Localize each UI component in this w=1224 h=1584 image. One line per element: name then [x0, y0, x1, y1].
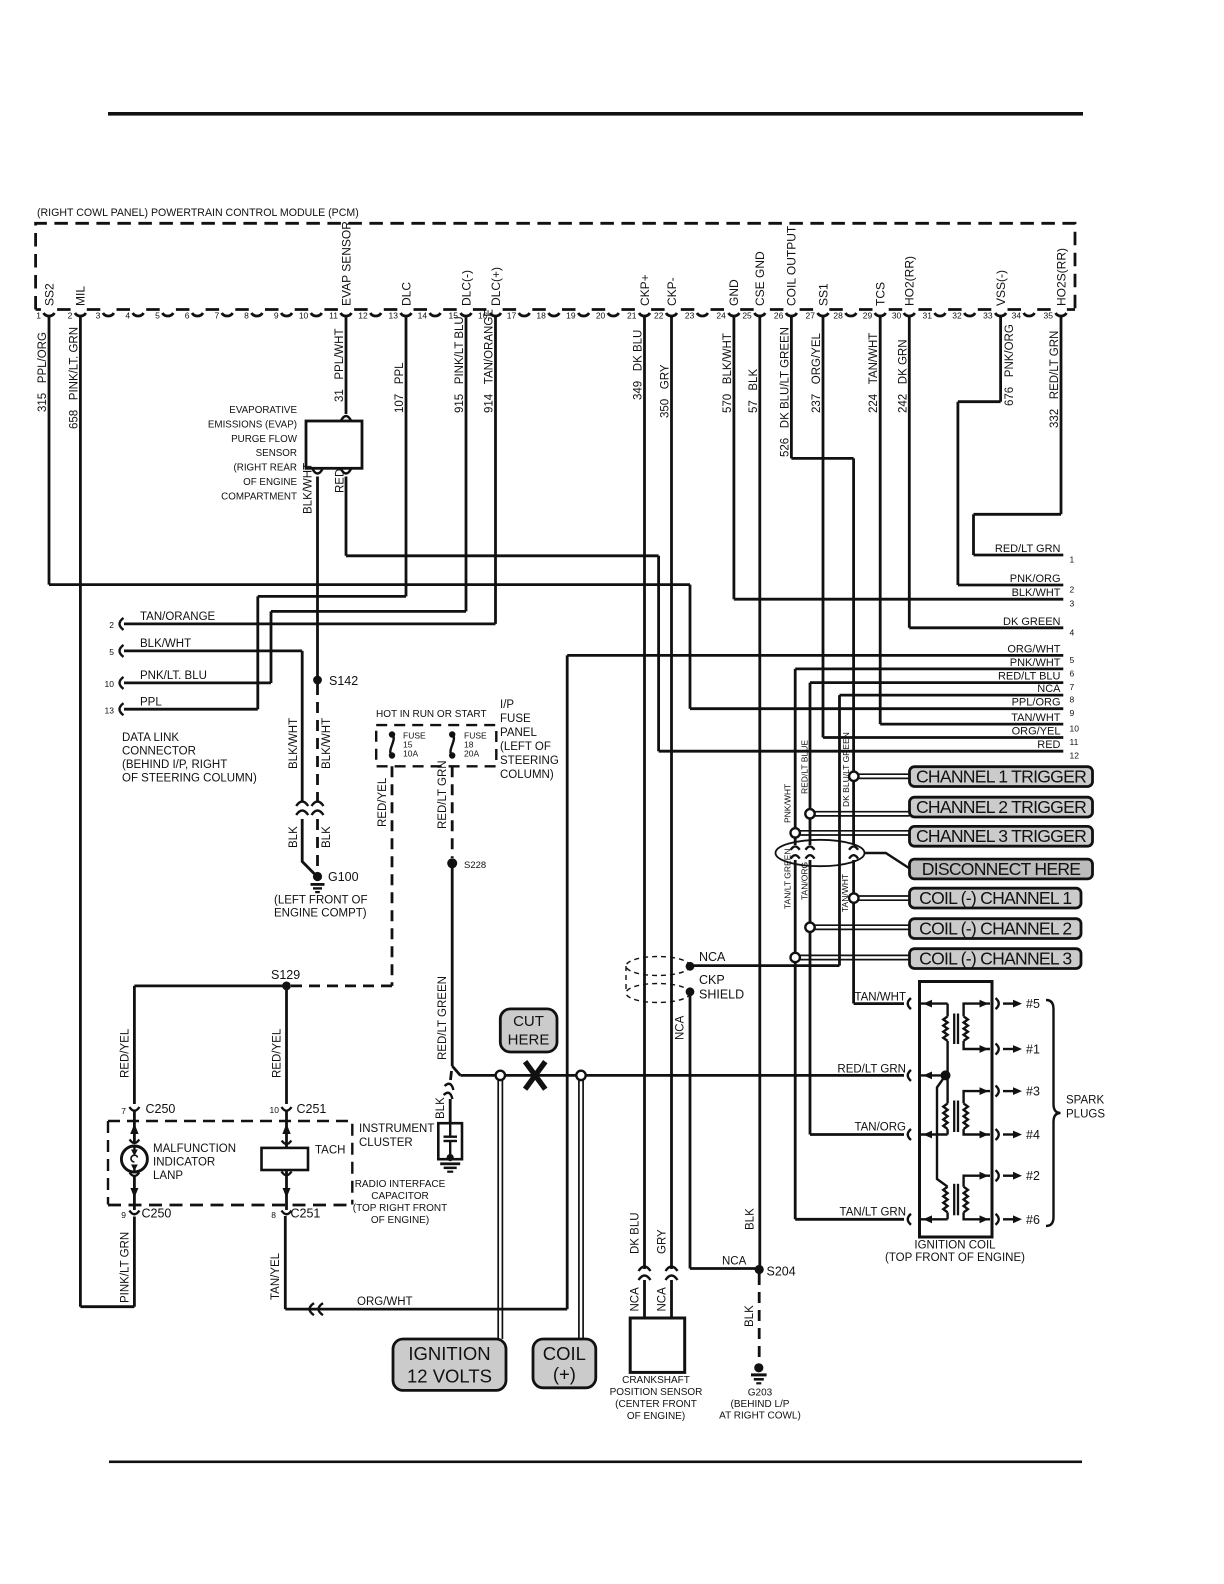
- ladder wire 3 BLK/WHT: [734, 598, 1063, 601]
- hollow wire COIL (-) CHANNEL 3: [795, 954, 909, 956]
- wire pin11 EVAP to sensor box: [345, 316, 348, 414]
- svg-text:SHIELD: SHIELD: [699, 988, 744, 1002]
- CKP shield drum: [626, 957, 690, 976]
- DLC line 10 PNK/LT. BLU: [124, 682, 271, 685]
- svg-text:DK GREEN: DK GREEN: [1003, 616, 1061, 628]
- break symbol on ORG/WHT run: [310, 1303, 324, 1315]
- svg-text:28: 28: [833, 311, 843, 321]
- wire pin29 TCS 224 TAN/WHT down to ladder 10: [879, 316, 882, 724]
- PCM pin 28 connector: [845, 313, 856, 316]
- svg-text:1: 1: [1070, 555, 1075, 565]
- connector at EVAP sensor bottom left (BLK/WHT): [313, 469, 323, 474]
- svg-text:8: 8: [244, 311, 249, 321]
- PCM pin 21 connector: [639, 313, 650, 316]
- wire dashed RED/LT GRN from fuse 18 down to S228: [451, 766, 454, 858]
- connector circle channel 3 trigger on PNK/WHT: [791, 828, 800, 837]
- svg-text:DATA LINK: DATA LINK: [122, 732, 179, 744]
- T3 bypass wire from common dot: [937, 1075, 948, 1186]
- ladder wire 4 DK GREEN: [909, 626, 1063, 629]
- connector at EVAP sensor top: [341, 416, 351, 421]
- wire dashed RED/YEL from fuse 15 down: [391, 766, 394, 986]
- junction S204: [755, 1265, 764, 1274]
- svg-text:#6: #6: [1026, 1213, 1040, 1227]
- svg-text:(RIGHT COWL PANEL) POWERTRAIN: (RIGHT COWL PANEL) POWERTRAIN CONTROL MO…: [37, 207, 359, 219]
- svg-text:EMISSIONS (EVAP): EMISSIONS (EVAP): [208, 419, 297, 430]
- wire pin22 CKP- 350 GRY vertical: [670, 316, 673, 1269]
- svg-text:11: 11: [329, 311, 338, 321]
- svg-text:I/P: I/P: [500, 699, 514, 711]
- wire TACH to C251-8 with arrow: [285, 1170, 288, 1210]
- transformer T1 primary winding: [946, 1004, 948, 1017]
- instrument cluster bottom thick dashed edge: [108, 1204, 352, 1207]
- MIL lamp top connector arc: [130, 1140, 140, 1144]
- transformer T3 core: [953, 1184, 955, 1216]
- svg-text:ORG/WHT: ORG/WHT: [357, 1296, 413, 1308]
- ladder wire 11 ORG/YEL: [823, 736, 1063, 739]
- svg-text:S129: S129: [271, 968, 300, 982]
- coil input TAN/ORG from TAN/ORG riser: [810, 1133, 904, 1136]
- svg-text:HOT IN RUN OR START: HOT IN RUN OR START: [376, 709, 487, 720]
- svg-text:C251: C251: [297, 1102, 327, 1116]
- PCM pin 32 connector: [964, 313, 975, 316]
- svg-text:TAN/ORANGE: TAN/ORANGE: [140, 611, 216, 623]
- svg-text:#3: #3: [1026, 1085, 1040, 1099]
- wire pin15 horizontal jog: [271, 610, 466, 613]
- PCM pin 4 connector: [133, 313, 144, 316]
- fuse 18 20A: [449, 731, 455, 737]
- PCM pin 2 connector: [75, 313, 86, 316]
- svg-text:RED/LT BLU: RED/LT BLU: [998, 671, 1061, 683]
- svg-text:10: 10: [270, 1105, 280, 1115]
- svg-text:AT RIGHT COWL): AT RIGHT COWL): [719, 1411, 801, 1422]
- svg-text:MIL: MIL: [74, 286, 88, 306]
- svg-text:20A: 20A: [464, 749, 479, 759]
- wire NCA from shield tap to riser: [690, 964, 840, 967]
- svg-text:NCA: NCA: [1037, 683, 1061, 695]
- svg-text:(LEFT OF: (LEFT OF: [500, 741, 551, 753]
- wire NCA horizontal to S204: [690, 1267, 759, 1270]
- svg-text:G100: G100: [328, 870, 359, 884]
- coil internal input lines with left arrows: [921, 1002, 948, 1004]
- wire RED/LT GRN riser down to ladder 1: [972, 514, 975, 555]
- svg-text:BLK/WHT: BLK/WHT: [303, 463, 315, 514]
- wire pin16 DLC(+) 914 vertical: [494, 316, 497, 624]
- svg-text:#4: #4: [1026, 1128, 1040, 1142]
- svg-text:LANP: LANP: [153, 1170, 183, 1182]
- svg-text:14: 14: [418, 311, 428, 321]
- ladder wire 10 TAN/WHT: [880, 723, 1063, 726]
- svg-text:TAN/ORG: TAN/ORG: [800, 862, 810, 900]
- page bottom rule: [109, 1461, 1082, 1464]
- instrument cluster dashed box: [108, 1121, 352, 1205]
- svg-text:NCA: NCA: [657, 1287, 669, 1312]
- svg-text:1: 1: [36, 311, 41, 321]
- svg-text:7: 7: [214, 311, 219, 321]
- wire pin21 CKP+ 349 DK BLU vertical: [643, 316, 646, 1269]
- svg-text:SS1: SS1: [816, 283, 830, 306]
- svg-text:21: 21: [627, 311, 637, 321]
- svg-text:107 PPL: 107 PPL: [394, 362, 406, 413]
- svg-text:224 TAN/WHT: 224 TAN/WHT: [868, 333, 880, 413]
- svg-text:10: 10: [1070, 724, 1080, 734]
- svg-text:RED: RED: [1037, 739, 1060, 751]
- ladder wire 1 RED/LT GRN: [974, 554, 1064, 557]
- svg-text:PINK/LT GRN: PINK/LT GRN: [120, 1232, 132, 1303]
- wire NCA riser up to ladder 8: [838, 695, 841, 966]
- svg-text:5: 5: [109, 647, 114, 657]
- svg-text:7: 7: [1070, 682, 1075, 692]
- wire MIL bottom horizontal: [80, 1305, 134, 1308]
- svg-text:349 DK BLU: 349 DK BLU: [633, 330, 645, 400]
- connector circle to COIL (+): [576, 1071, 585, 1080]
- svg-text:NCA: NCA: [675, 1015, 687, 1040]
- connector at coil RED/LT GRN: [908, 1070, 911, 1081]
- connector circle to IGNITION 12 VOLTS: [496, 1071, 505, 1080]
- wire EVAP BLK/WHT down to S142: [316, 477, 319, 681]
- svg-text:RADIO INTERFACE: RADIO INTERFACE: [355, 1179, 446, 1190]
- svg-text:PPL/ORG: PPL/ORG: [1012, 697, 1061, 709]
- wire dashed BLK below break to G100: [316, 819, 319, 871]
- I/P fuse panel dashed box: [376, 725, 496, 766]
- T2 secondary leads: [964, 1091, 990, 1103]
- wire C250-9 riser: [133, 1217, 136, 1307]
- svg-text:BLK: BLK: [321, 826, 333, 848]
- svg-text:SPARK: SPARK: [1066, 1095, 1104, 1107]
- svg-text:(BEHIND L/P: (BEHIND L/P: [731, 1399, 790, 1410]
- connector circle coil - channel 3 on TAN/LT GREEN: [791, 953, 800, 962]
- wire into MIL lamp with up arrow: [133, 1110, 136, 1143]
- svg-text:29: 29: [863, 311, 873, 321]
- svg-text:GND: GND: [727, 279, 741, 306]
- PCM pin 16 connector: [490, 313, 501, 316]
- svg-text:914 TAN/ORANGE: 914 TAN/ORANGE: [484, 309, 496, 413]
- wire pin35 jog left: [974, 513, 1062, 516]
- svg-text:315 PPL/ORG: 315 PPL/ORG: [37, 332, 49, 412]
- hollow wire CHANNEL 3 TRIGGER: [795, 830, 909, 832]
- svg-text:9: 9: [1070, 708, 1075, 718]
- wire DLC BLK/WHT ground riser: [301, 651, 304, 801]
- wire pin33 jog left: [958, 400, 1001, 403]
- svg-text:CHANNEL 2 TRIGGER: CHANNEL 2 TRIGGER: [916, 797, 1086, 817]
- wire RED/YEL S129 down to C251-10: [285, 986, 288, 1104]
- PCM pin 19 connector: [578, 313, 589, 316]
- PCM pin 27 connector: [818, 313, 829, 316]
- svg-text:332 RED/LT GRN: 332 RED/LT GRN: [1049, 331, 1061, 428]
- svg-text:13: 13: [105, 706, 115, 716]
- svg-text:10A: 10A: [403, 749, 418, 759]
- svg-text:BLK: BLK: [288, 826, 300, 848]
- transformer T1 core: [953, 1014, 955, 1045]
- svg-text:POSITION SENSOR: POSITION SENSOR: [610, 1387, 703, 1398]
- wire ORG/WHT riser up to ladder 5: [566, 655, 569, 1309]
- CHANNEL 3 TRIGGER box: [910, 826, 1093, 846]
- svg-text:ORG/YEL: ORG/YEL: [1012, 726, 1061, 738]
- spark plug output 3: [996, 1086, 999, 1097]
- svg-text:26: 26: [774, 311, 784, 321]
- PCM pin 6 connector: [192, 313, 203, 316]
- ladder wire 9 PPL/ORG: [690, 707, 1063, 710]
- svg-text:11: 11: [1070, 737, 1079, 747]
- break symbol on dashed ground wire: [312, 802, 324, 816]
- svg-text:23: 23: [685, 311, 695, 321]
- svg-text:BLK: BLK: [744, 1305, 756, 1327]
- svg-text:CAPACITOR: CAPACITOR: [371, 1191, 428, 1202]
- EVAP purge flow sensor box: [306, 421, 362, 468]
- svg-text:PLUGS: PLUGS: [1066, 1109, 1105, 1121]
- svg-text:CSE GND: CSE GND: [753, 251, 767, 306]
- shield CKP SHIELD dot: [686, 987, 695, 996]
- wire pin33 VSS(-) 676 PNK/ORG vertical: [999, 316, 1002, 402]
- transformer T1 secondary winding: [964, 1016, 968, 1040]
- svg-text:12: 12: [358, 311, 368, 321]
- DLC line 5 BLK/WHT: [124, 650, 302, 653]
- svg-text:BLK: BLK: [745, 1208, 757, 1230]
- wire pin15 DLC(-) 915 vertical: [465, 316, 468, 611]
- ground G100: [313, 872, 322, 881]
- coil input TAN/WHT from DK BLU/LT GREEN riser: [854, 1002, 904, 1005]
- svg-text:MALFUNCTION: MALFUNCTION: [153, 1143, 236, 1155]
- svg-text:(TOP RIGHT FRONT: (TOP RIGHT FRONT: [353, 1203, 447, 1214]
- transformer T2 primary winding: [946, 1075, 948, 1103]
- svg-text:S204: S204: [767, 1265, 796, 1279]
- fuse 15 10A: [389, 731, 395, 737]
- svg-text:TAN/YEL: TAN/YEL: [270, 1252, 282, 1300]
- svg-text:BLK/WHT: BLK/WHT: [140, 638, 191, 650]
- wire pin30 HO2(RR) 242 DK GRN down to ladder 4: [908, 316, 911, 628]
- T1 secondary leads: [964, 1004, 990, 1017]
- svg-text:TACH: TACH: [315, 1145, 345, 1157]
- svg-text:C251: C251: [291, 1207, 321, 1221]
- svg-text:CUT: CUT: [513, 1013, 544, 1030]
- wire TAN/ORG riser below ellipse to coil: [809, 860, 812, 1135]
- svg-text:#1: #1: [1026, 1043, 1040, 1057]
- svg-text:#2: #2: [1026, 1169, 1040, 1183]
- COIL (+) grey box: [533, 1339, 596, 1388]
- DLC line 2 TAN/ORANGE: [124, 623, 496, 626]
- CUT HERE grey box: [500, 1009, 557, 1052]
- hollow wire COIL (-) CHANNEL 2: [810, 924, 910, 926]
- transformer T2 secondary winding: [964, 1103, 968, 1129]
- break symbol on CKP+ wire: [639, 1267, 651, 1281]
- break symbol on solid ground wire: [296, 802, 308, 816]
- svg-text:S142: S142: [329, 674, 358, 688]
- svg-text:CKP-: CKP-: [665, 277, 679, 306]
- ladder wire 7 RED/LT BLU: [810, 681, 1063, 684]
- svg-text:TAN/WHT: TAN/WHT: [854, 992, 906, 1004]
- PCM dashed enclosure (RIGHT COWL PANEL) POWERTRAIN CONTROL MODULE (PCM): [36, 223, 1075, 309]
- svg-text:RED/LT BLUE: RED/LT BLUE: [800, 740, 810, 794]
- svg-text:242 DK GRN: 242 DK GRN: [897, 340, 909, 414]
- wire pin13 DLC 107 PPL vertical: [405, 316, 408, 596]
- connector at coil TAN/LT GRN: [908, 1214, 911, 1225]
- PCM pin 5 connector: [162, 313, 173, 316]
- ladder wire 2 PNK/ORG: [958, 584, 1063, 587]
- svg-text:HO2S(RR): HO2S(RR): [1054, 248, 1068, 306]
- PCM pin 29 connector: [875, 313, 886, 316]
- wire pin1 horizontal run to PPL/ORG riser: [49, 583, 690, 586]
- svg-text:RED/LT GRN: RED/LT GRN: [437, 760, 449, 829]
- PCM pin 14 connector: [430, 313, 441, 316]
- wire PNK/LT BLU riser to DLC pin 10: [270, 611, 273, 683]
- junction S228: [447, 858, 457, 868]
- wire PPL/ORG riser to ladder 9: [689, 585, 692, 709]
- svg-text:18: 18: [536, 311, 546, 321]
- svg-text:NCA: NCA: [722, 1256, 747, 1268]
- svg-text:(CENTER FRONT: (CENTER FRONT: [615, 1399, 697, 1410]
- wire MIL lamp to C250-9 with arrow: [133, 1176, 136, 1210]
- wire pin24 GND 570 BLK/WHT down to ladder 3: [733, 316, 736, 599]
- svg-text:10: 10: [299, 311, 309, 321]
- spark plug output 6: [996, 1214, 999, 1225]
- svg-text:57 BLK: 57 BLK: [748, 369, 760, 413]
- svg-text:8: 8: [1070, 695, 1075, 705]
- svg-text:PPL: PPL: [140, 697, 162, 709]
- svg-text:10: 10: [105, 679, 115, 689]
- malfunction indicator lamp bulb: [121, 1146, 147, 1172]
- wire RED/YEL down to C250-7: [133, 986, 136, 1104]
- wire PNK/WHT riser ladder 6 down to ellipse: [794, 669, 797, 845]
- wire NCA to sensor: [643, 1280, 646, 1318]
- svg-text:SS2: SS2: [42, 283, 56, 306]
- spark feed horizontal line to ignition coil: [460, 1074, 904, 1077]
- COIL (-) CHANNEL 3 box: [910, 949, 1082, 969]
- svg-text:676 PNK/ORG: 676 PNK/ORG: [1004, 324, 1016, 406]
- svg-text:OF ENGINE): OF ENGINE): [627, 1411, 685, 1422]
- spark plug output 4: [996, 1129, 999, 1140]
- crankshaft position sensor box: [630, 1318, 685, 1372]
- svg-text:PNK/WHT: PNK/WHT: [1010, 657, 1061, 669]
- svg-text:237 ORG/YEL: 237 ORG/YEL: [811, 332, 823, 413]
- connector circle channel 1 trigger on DK BLU/LT GREEN: [849, 772, 858, 781]
- svg-text:25: 25: [742, 311, 752, 321]
- svg-text:IGNITION: IGNITION: [408, 1343, 490, 1364]
- PCM pin 34 connector: [1024, 313, 1035, 316]
- svg-text:PANEL: PANEL: [500, 727, 537, 739]
- svg-text:COIL (-) CHANNEL 2: COIL (-) CHANNEL 2: [919, 919, 1071, 939]
- wire PPL riser to DLC pin 13: [256, 596, 259, 709]
- wire pin26 jog right: [791, 457, 853, 460]
- svg-text:22: 22: [654, 311, 664, 321]
- svg-text:GRY: GRY: [657, 1229, 669, 1254]
- svg-text:DISCONNECT HERE: DISCONNECT HERE: [922, 859, 1081, 879]
- svg-text:526 DK BLU/LT GREEN: 526 DK BLU/LT GREEN: [779, 327, 791, 457]
- wire RED/LT GREEN down from S228: [451, 863, 454, 1066]
- break symbols inside ellipse on three coil wires: [791, 846, 800, 858]
- IGNITION 12 VOLTS grey box: [393, 1339, 506, 1390]
- svg-text:(RIGHT REAR: (RIGHT REAR: [233, 463, 297, 474]
- junction dot RED/LT GRN common: [941, 1070, 951, 1080]
- svg-text:COIL (-) CHANNEL 1: COIL (-) CHANNEL 1: [919, 888, 1071, 908]
- svg-text:27: 27: [806, 311, 816, 321]
- hollow wire COIL (-) CHANNEL 1: [854, 895, 910, 897]
- connector circle coil - channel 2 on TAN/ORG: [805, 923, 814, 932]
- svg-text:CKP: CKP: [699, 973, 725, 987]
- radio interface capacitor box: [438, 1123, 462, 1159]
- svg-text:S228: S228: [464, 860, 486, 871]
- svg-text:RED/LT GREEN: RED/LT GREEN: [437, 976, 449, 1060]
- svg-text:31: 31: [923, 311, 933, 321]
- hollow wire down to IGNITION 12 VOLTS: [497, 1080, 499, 1339]
- svg-text:DK BLU/LT GREEN: DK BLU/LT GREEN: [841, 732, 851, 807]
- svg-text:SENSOR: SENSOR: [256, 448, 297, 459]
- hollow wire CHANNEL 2 TRIGGER: [810, 811, 910, 813]
- wire TAN/YEL from C251-8 down: [284, 1216, 287, 1309]
- svg-text:C250: C250: [146, 1102, 176, 1116]
- spark plug output 2: [996, 1170, 999, 1181]
- wire PNK/ORG riser down to ladder 2: [957, 402, 960, 585]
- svg-text:915 PINK/LT BLU: 915 PINK/LT BLU: [454, 316, 466, 413]
- CHANNEL 1 TRIGGER box: [910, 767, 1093, 787]
- svg-text:8: 8: [271, 1210, 276, 1220]
- ladder wire 8 NCA: [840, 694, 1064, 697]
- spark plug output 1: [996, 1044, 999, 1055]
- svg-text:TAN/LT GRN: TAN/LT GRN: [840, 1206, 906, 1218]
- wire S129 left run: [134, 985, 286, 988]
- wire DK BLU/LT GREEN riser down to coil TAN/WHT: [852, 458, 855, 845]
- svg-text:OF ENGINE: OF ENGINE: [243, 477, 297, 488]
- svg-text:5: 5: [1070, 655, 1075, 665]
- transformer T3 primary winding: [943, 1187, 947, 1213]
- svg-text:COLUMN): COLUMN): [500, 769, 554, 781]
- svg-text:CHANNEL 3 TRIGGER: CHANNEL 3 TRIGGER: [916, 826, 1086, 846]
- svg-text:TAN/WHT: TAN/WHT: [1011, 712, 1061, 724]
- wire EVAP RED down: [345, 477, 348, 556]
- svg-text:C250: C250: [142, 1207, 172, 1221]
- svg-text:2: 2: [109, 620, 114, 630]
- svg-text:PNK/LT. BLU: PNK/LT. BLU: [140, 670, 207, 682]
- PCM pin 12 connector: [370, 313, 381, 316]
- wire pin25 57 BLK down to S204: [758, 316, 761, 1269]
- wire TAN/LT GREEN riser below ellipse to coil: [794, 860, 797, 1219]
- svg-text:12 VOLTS: 12 VOLTS: [407, 1366, 492, 1387]
- ladder wire 5 ORG/WHT: [567, 654, 1063, 657]
- svg-text:ENGINE COMPT): ENGINE COMPT): [274, 908, 367, 920]
- svg-text:STEERING: STEERING: [500, 755, 559, 767]
- capacitor ground dot: [447, 1154, 454, 1161]
- svg-text:658 PINK/LT. GRN: 658 PINK/LT. GRN: [68, 327, 80, 429]
- svg-text:RED/YEL: RED/YEL: [272, 1028, 284, 1078]
- junction S142: [313, 676, 322, 685]
- PCM pin 35 connector: [1056, 313, 1067, 316]
- svg-text:33: 33: [983, 311, 993, 321]
- wire NCA to sensor: [670, 1280, 673, 1318]
- svg-text:HO2(RR): HO2(RR): [903, 256, 917, 306]
- wire pin27 SS1 237 ORG/YEL down to ladder 11: [822, 316, 825, 738]
- junction S129: [282, 982, 291, 991]
- svg-text:EVAPORATIVE: EVAPORATIVE: [229, 405, 297, 416]
- connector at coil TAN/ORG: [908, 1129, 911, 1140]
- svg-text:(LEFT FRONT OF: (LEFT FRONT OF: [274, 895, 368, 907]
- svg-text:CHANNEL 1 TRIGGER: CHANNEL 1 TRIGGER: [916, 767, 1086, 787]
- svg-text:BLK/WHT: BLK/WHT: [288, 718, 300, 769]
- svg-text:EVAP SENSOR: EVAP SENSOR: [339, 221, 353, 306]
- svg-text:PNK/ORG: PNK/ORG: [1010, 573, 1061, 585]
- svg-text:20: 20: [596, 311, 606, 321]
- svg-text:34: 34: [1012, 311, 1022, 321]
- svg-text:RED/YEL: RED/YEL: [120, 1028, 132, 1078]
- svg-text:(BEHIND I/P, RIGHT: (BEHIND I/P, RIGHT: [122, 759, 227, 771]
- svg-text:32: 32: [952, 311, 962, 321]
- capacitor symbol: [449, 1123, 451, 1136]
- svg-text:HERE: HERE: [508, 1032, 550, 1049]
- svg-text:BLK/WHT: BLK/WHT: [321, 718, 333, 769]
- svg-text:6: 6: [1070, 668, 1075, 678]
- wire RED/LT BLU riser ladder 7 down to ellipse: [809, 683, 812, 845]
- connector at EVAP sensor bottom right (RED): [341, 469, 351, 474]
- PCM pin 26 connector: [786, 313, 797, 316]
- svg-text:BLK: BLK: [435, 1097, 447, 1119]
- PCM pin 8 connector: [251, 313, 262, 316]
